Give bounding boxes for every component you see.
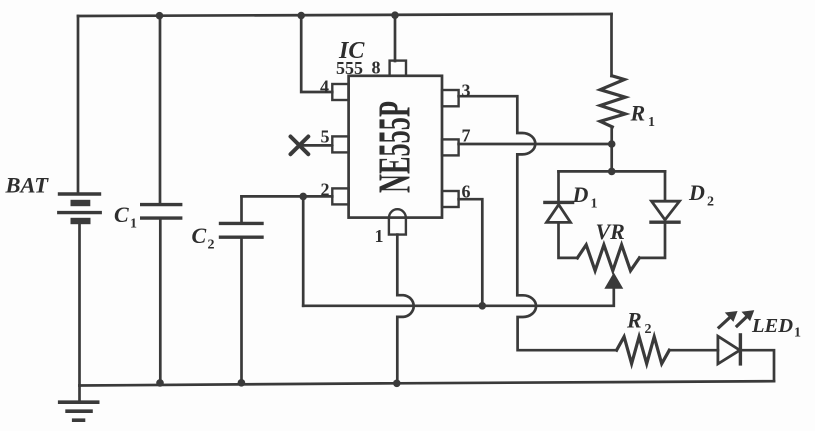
svg-text:4: 4 bbox=[320, 77, 329, 97]
label C1 bbox=[114, 202, 137, 232]
IC pin 6 tab bbox=[442, 191, 459, 207]
IC pin 8 tab bbox=[390, 61, 406, 76]
svg-text:BAT: BAT bbox=[5, 173, 50, 198]
svg-text:LED: LED bbox=[751, 315, 793, 337]
wire R1 bottom to bridge bbox=[610, 127, 613, 171]
svg-text:R: R bbox=[630, 101, 646, 126]
IC pin 1 tab bbox=[389, 209, 406, 234]
node top pin4 branch bbox=[297, 12, 305, 20]
svg-text:VR: VR bbox=[596, 219, 625, 244]
IC U1 body bbox=[349, 76, 442, 218]
svg-text:7: 7 bbox=[462, 126, 471, 146]
wire top supply rail bbox=[78, 14, 612, 16]
wire battery bottom bbox=[78, 224, 81, 385]
label R1 bbox=[630, 101, 656, 131]
LED1 emission arrows bbox=[719, 311, 754, 328]
node top pin8 branch bbox=[391, 11, 399, 19]
svg-text:D: D bbox=[572, 182, 589, 207]
IC pin 4 tab bbox=[332, 84, 348, 100]
svg-text:2: 2 bbox=[321, 180, 330, 200]
node bridge top bbox=[608, 168, 616, 176]
wire pin8 branch bbox=[394, 15, 397, 61]
IC pin 2 tab bbox=[332, 188, 348, 204]
potentiometer VR bbox=[577, 245, 639, 271]
capacitor C2 bbox=[221, 223, 263, 237]
wire pin2 branch down bbox=[302, 196, 305, 305]
node top C1 bbox=[156, 12, 164, 20]
node pin2 branch bbox=[299, 193, 307, 201]
wire pin6 bbox=[459, 199, 483, 306]
wire bridge right lower bbox=[639, 222, 665, 258]
VR wiper arrow bbox=[605, 274, 622, 289]
IC pin 7 tab bbox=[442, 139, 459, 155]
ground bbox=[60, 386, 98, 421]
wire trigger-threshold rail to VR wiper bbox=[303, 290, 614, 306]
wire bridge top bbox=[559, 170, 666, 173]
node bottom C2 bbox=[238, 379, 246, 387]
svg-text:C: C bbox=[114, 202, 129, 227]
wire pin7 to R1 node bbox=[459, 143, 612, 146]
svg-text:555: 555 bbox=[336, 58, 363, 78]
svg-text:C: C bbox=[192, 223, 207, 248]
IC pin 3 tab bbox=[442, 90, 459, 106]
svg-text:D: D bbox=[688, 180, 705, 205]
wire R1 top bbox=[610, 14, 613, 76]
wire pin3 output down with hops bbox=[459, 96, 617, 350]
svg-text:2: 2 bbox=[208, 238, 215, 253]
wire pin2 to C2 bbox=[242, 195, 333, 198]
svg-text:1: 1 bbox=[130, 217, 137, 232]
wire C1 bottom stem bbox=[159, 218, 162, 383]
wire pin4 branch bbox=[301, 16, 332, 93]
svg-text:2: 2 bbox=[707, 195, 714, 210]
wire C1 top stem bbox=[159, 16, 162, 204]
wire R2 to LED bbox=[669, 349, 718, 352]
wire bridge left upper bbox=[557, 171, 560, 201]
no-connect X pin 5 bbox=[291, 137, 333, 155]
battery BAT bbox=[59, 194, 100, 224]
svg-text:8: 8 bbox=[372, 58, 381, 78]
svg-text:2: 2 bbox=[645, 322, 652, 337]
label LED1 bbox=[751, 315, 801, 341]
diode D1 bbox=[545, 202, 573, 222]
LED LED1 bbox=[718, 335, 741, 364]
resistor R2 bbox=[617, 337, 670, 364]
label R2 bbox=[626, 308, 652, 338]
node pin1 bottom bbox=[393, 380, 401, 388]
resistor R1 bbox=[600, 76, 625, 127]
label D1 bbox=[572, 182, 598, 212]
wire left rail battery top bbox=[77, 16, 80, 194]
svg-text:5: 5 bbox=[321, 127, 330, 147]
label D2 bbox=[688, 180, 714, 210]
wire bridge left lower bbox=[559, 223, 578, 258]
svg-text:1: 1 bbox=[794, 326, 801, 341]
svg-text:NE555P: NE555P bbox=[369, 101, 420, 193]
wire pin1 down with hop bbox=[397, 235, 413, 384]
svg-text:1: 1 bbox=[375, 226, 384, 246]
svg-text:R: R bbox=[626, 308, 642, 333]
node pin6 junction bbox=[479, 302, 487, 310]
capacitor C1 bbox=[142, 205, 181, 219]
svg-text:1: 1 bbox=[648, 115, 655, 130]
IC pin 5 tab bbox=[332, 136, 348, 152]
svg-text:3: 3 bbox=[462, 81, 471, 101]
node pin7 R1 bbox=[608, 140, 616, 148]
label C2 bbox=[192, 223, 215, 253]
wire bottom ground rail bbox=[80, 381, 775, 385]
svg-text:6: 6 bbox=[462, 182, 471, 202]
svg-text:1: 1 bbox=[591, 197, 598, 212]
wire bridge right upper bbox=[664, 171, 667, 201]
wire C2 top stem bbox=[240, 196, 243, 223]
node bottom C1 bbox=[156, 379, 164, 387]
wire C2 bottom stem bbox=[240, 238, 243, 384]
wire LED to bottom rail bbox=[740, 350, 774, 381]
diode D2 bbox=[651, 201, 680, 222]
